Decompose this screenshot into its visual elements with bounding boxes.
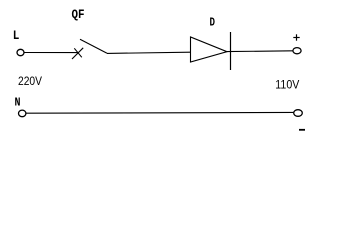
diode D cathode bar [230, 32, 232, 70]
svg-text:N: N [15, 96, 21, 110]
terminal - output [294, 110, 303, 117]
svg-text:QF: QF [72, 7, 85, 22]
terminal L [17, 49, 24, 55]
svg-text:L: L [13, 28, 20, 43]
svg-text:220V: 220V [18, 74, 42, 88]
breaker QF blade [80, 39, 107, 53]
svg-text:D: D [210, 15, 216, 29]
wire breaker to diode [107, 52, 191, 53]
plus mark [293, 34, 299, 40]
terminal + output [293, 48, 301, 54]
svg-text:110V: 110V [275, 78, 299, 92]
wire L terminal to breaker [24, 52, 78, 54]
wire N terminal to - terminal [26, 111, 293, 114]
terminal N [19, 110, 26, 117]
diode D triangle (anode) [191, 37, 228, 62]
minus mark [299, 129, 305, 131]
wire diode to + terminal [227, 50, 294, 53]
breaker QF contact cross [72, 48, 83, 59]
